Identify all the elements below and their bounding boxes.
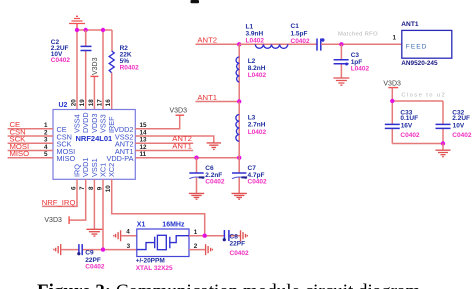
capacitor C3 (334, 44, 370, 77)
svg-text:V3D3: V3D3 (170, 108, 188, 115)
capacitor C6 (189, 158, 225, 194)
inductor L2 (236, 44, 266, 101)
resistor R2 (109, 45, 139, 110)
node XC1 junction (101, 247, 105, 251)
wire VSS1 (pin 8) to ground (93, 179, 95, 229)
svg-text:20: 20 (71, 99, 78, 107)
svg-text:V3D3: V3D3 (383, 81, 401, 88)
node junctions on VDD-PA bus (194, 156, 241, 160)
svg-text:VSS3: VSS3 (99, 114, 108, 133)
svg-text:L0402: L0402 (248, 72, 267, 79)
svg-text:VDD1: VDD1 (81, 158, 90, 177)
ground (VSS2) (207, 143, 221, 150)
wire L1 row to C1 (239, 43, 317, 45)
svg-text:FEED: FEED (406, 43, 428, 50)
ground (C7) (232, 193, 247, 199)
wire V3D3 rail (392, 101, 443, 144)
ground (C6) (189, 193, 204, 199)
svg-text:19: 19 (79, 99, 86, 107)
svg-text:10V: 10V (453, 122, 465, 129)
capacitor C1 (291, 23, 325, 50)
svg-text:VSS4: VSS4 (73, 114, 82, 133)
inductor L1 (246, 23, 288, 48)
svg-text:C0402: C0402 (205, 179, 225, 186)
power port V3D3 (C33 rail) (383, 81, 401, 102)
svg-text:Figure 2: Communication module: Figure 2: Communication module circuit d… (37, 281, 420, 289)
svg-text:Close to u2: Close to u2 (401, 92, 446, 98)
wire VDD-PA (pin 11) bus (135, 157, 239, 159)
ground (C8 right, sideways) (241, 230, 248, 241)
svg-text:L3: L3 (248, 115, 256, 122)
svg-text:IRQ: IRQ (73, 164, 82, 177)
svg-text:16: 16 (105, 99, 112, 107)
svg-text:V3D3: V3D3 (44, 217, 62, 224)
svg-text:AN9520-245: AN9520-245 (401, 60, 438, 67)
wire X1 pin 1 row (189, 235, 241, 237)
svg-text:VDD-PA: VDD-PA (106, 154, 133, 163)
svg-text:XC1: XC1 (99, 163, 108, 177)
svg-text:22PF: 22PF (230, 240, 246, 247)
svg-text:C0402: C0402 (248, 179, 268, 186)
power port V3D3 (pin 18) (90, 57, 99, 109)
ground (VSS1) (86, 229, 102, 236)
wire X1 pin 2 (189, 249, 206, 251)
svg-text:NRF24L01: NRF24L01 (76, 134, 113, 143)
capacitor C33 (385, 109, 420, 138)
svg-text:V3D3: V3D3 (92, 57, 99, 75)
svg-text:1: 1 (392, 35, 396, 42)
crystal X1 16MHz (136, 221, 189, 271)
node top bus junctions (75, 28, 105, 32)
capacitor C9 (77, 244, 105, 270)
node rail junctions (390, 99, 445, 146)
capacitor C2 (51, 30, 92, 110)
wire VSS2 (pin 14) to ground (135, 136, 214, 143)
svg-text:C0402: C0402 (400, 132, 420, 139)
svg-text:C0402: C0402 (452, 132, 472, 139)
svg-text:Matched RFO: Matched RFO (338, 32, 378, 38)
svg-text:4: 4 (126, 229, 130, 236)
svg-text:ANT1: ANT1 (401, 21, 419, 28)
svg-text:8.2nH: 8.2nH (248, 65, 266, 72)
wire top ground bus (77, 30, 112, 110)
svg-text:L0402: L0402 (246, 38, 265, 45)
wire ANT1 (pin 12) (135, 149, 193, 151)
svg-text:ANT1: ANT1 (172, 141, 192, 150)
node ANT2 junction (237, 42, 241, 46)
wire X1 pin 4 (121, 235, 137, 237)
wire crystal row 3 (61, 249, 137, 251)
svg-text:3: 3 (127, 243, 131, 250)
power port V3D3 (pin 15) (170, 108, 188, 116)
svg-text:R0402: R0402 (120, 64, 140, 71)
svg-text:NRF_IRQ: NRF_IRQ (42, 198, 76, 207)
svg-text:U2: U2 (59, 102, 68, 109)
ground (X1 pin 2, sideways) (206, 244, 213, 255)
ground (C9 left, sideways) (54, 244, 61, 255)
IC U2 NRF24L01 (44, 99, 147, 192)
cropped caption fragment (top) (191, 0, 200, 3)
svg-text:MISO: MISO (10, 149, 30, 158)
wire ANT2 (pin 13) (135, 142, 193, 144)
svg-text:X1: X1 (137, 221, 146, 228)
ground (C33/C32 rail) (436, 144, 451, 157)
svg-text:C0402: C0402 (51, 57, 71, 64)
svg-text:L0402: L0402 (248, 129, 267, 136)
svg-text:2.7nH: 2.7nH (248, 122, 266, 129)
svg-text:16MHz: 16MHz (162, 221, 185, 228)
wire XC1 (pin 9) (102, 179, 104, 249)
svg-text:L0402: L0402 (351, 65, 370, 72)
svg-text:16V: 16V (401, 122, 413, 129)
svg-text:+/-20PPM: +/-20PPM (136, 257, 165, 264)
node X1 pin1 / XC2 junction (203, 234, 207, 238)
svg-text:0.1UF: 0.1UF (400, 115, 418, 122)
svg-text:L1: L1 (246, 23, 254, 30)
svg-text:MISO: MISO (57, 154, 76, 163)
antenna ANT1 FEED AN9520-245 (401, 21, 452, 67)
inductor L3 (236, 102, 267, 158)
svg-text:DVDD: DVDD (81, 112, 90, 133)
wire VDD2 (pin 15) to power port (135, 115, 179, 129)
svg-text:C1: C1 (291, 23, 300, 30)
svg-text:17: 17 (97, 99, 104, 107)
wire SPI rows (left of U2) (8, 129, 53, 158)
svg-text:ANT2: ANT2 (197, 36, 217, 45)
wire IRQ (pin 6) (42, 179, 77, 206)
node ANT1 junction (237, 99, 241, 103)
ground (top, above U2) (69, 16, 85, 30)
svg-text:C0402: C0402 (85, 263, 105, 270)
power port V3D3 (pin 7) (44, 179, 85, 224)
svg-text:1.5pF: 1.5pF (291, 30, 308, 37)
capacitor C32 (436, 109, 472, 138)
svg-text:XTAL 32X25: XTAL 32X25 (136, 265, 173, 272)
wire ANT1 row (196, 101, 240, 103)
svg-text:C0402: C0402 (230, 250, 250, 257)
wire ANT2 row (196, 43, 240, 45)
svg-text:IREF: IREF (107, 116, 116, 133)
capacitor C7 (232, 158, 267, 194)
svg-text:ANT1: ANT1 (197, 93, 217, 102)
capacitor C8 (223, 230, 249, 257)
svg-text:C0402: C0402 (291, 38, 311, 45)
ground (X1 pin 4, sideways) (114, 230, 121, 241)
svg-text:1: 1 (194, 229, 198, 236)
svg-text:18: 18 (88, 99, 95, 107)
wire XC2 (pin 10) (112, 179, 205, 235)
ground (C3) (333, 78, 349, 85)
node C3 junction (339, 42, 343, 46)
svg-text:3.9nH: 3.9nH (246, 30, 264, 37)
wire C1 to FEED (321, 43, 402, 45)
svg-text:XC2: XC2 (107, 163, 116, 177)
svg-text:C9: C9 (85, 250, 94, 257)
svg-text:2.2UF: 2.2UF (452, 115, 470, 122)
